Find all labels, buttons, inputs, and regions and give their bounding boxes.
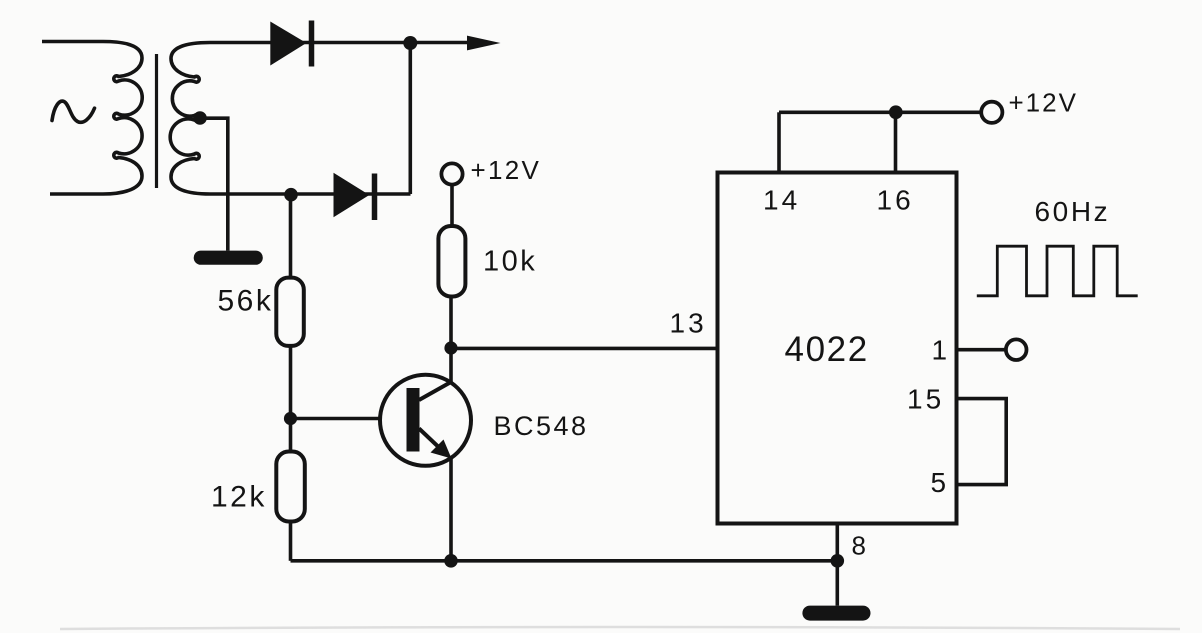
svg-text:56k: 56k [218,285,274,318]
svg-text:1: 1 [932,335,948,366]
svg-text:10k: 10k [483,246,537,278]
svg-text:+12V: +12V [471,155,542,185]
svg-text:16: 16 [877,185,914,216]
svg-text:14: 14 [763,185,800,216]
svg-text:+12V: +12V [1009,88,1078,118]
svg-text:4022: 4022 [785,330,869,369]
svg-text:15: 15 [907,384,944,415]
svg-text:12k: 12k [211,481,267,514]
svg-text:BC548: BC548 [494,411,589,441]
svg-text:13: 13 [670,308,707,339]
svg-text:5: 5 [931,467,947,498]
svg-text:60Hz: 60Hz [1035,196,1111,227]
svg-text:8: 8 [852,531,866,561]
